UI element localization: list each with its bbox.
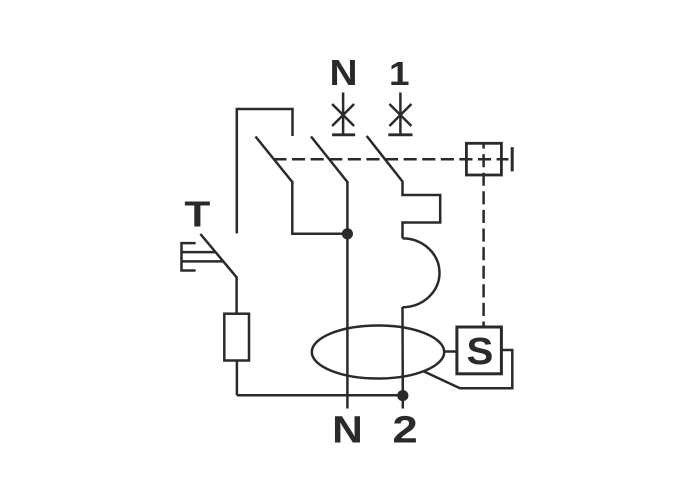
wire: secondary winding to relay S	[444, 350, 457, 353]
wire: pole A bottom to junction	[292, 181, 347, 234]
svg-text:S: S	[466, 331, 493, 373]
switch blade (pole C, line)	[367, 136, 403, 182]
svg-text:T: T	[184, 194, 210, 234]
toroidal core (sensing transformer ellipse)	[312, 326, 444, 379]
svg-text:N: N	[330, 53, 358, 93]
test push-button actuator (bracket with prongs)	[182, 243, 224, 270]
svg-text:N: N	[332, 408, 363, 451]
manual actuator tick	[511, 147, 514, 171]
wire: relay S return loop to secondary winding	[423, 350, 512, 388]
svg-text:1: 1	[389, 56, 410, 93]
mechanism box (square with dashed cross)	[466, 143, 501, 175]
wire: test blade to resistor	[235, 277, 238, 314]
primary winding bulge (line conductor half-turn through toroid)	[403, 238, 440, 307]
test switch blade	[200, 234, 236, 277]
svg-text:2: 2	[392, 408, 417, 451]
wire: line conductor down to node	[401, 307, 404, 396]
wire: resistor to bottom run	[236, 361, 239, 396]
dashed trip linkage (vertical, mechanism to relay S)	[482, 143, 485, 327]
wire: neutral conductor through toroid to terminal N	[346, 181, 349, 409]
wire: node down to terminal 2	[402, 396, 405, 409]
test resistor R	[224, 314, 249, 361]
switch blade (pole B, neutral)	[311, 137, 347, 183]
overcurrent release (thermal/magnetic trip detour)	[403, 181, 441, 238]
relay S box	[457, 327, 502, 374]
switch blade (pole A, test feed contact)	[256, 137, 293, 183]
dashed trip linkage (horizontal, couples the poles to mechanism)	[273, 158, 508, 161]
wire: test-circuit feed bracket (down-left from pole A fixed contact)	[237, 109, 293, 233]
junction node (test resistor joins line at terminal 2)	[397, 390, 408, 401]
terminal N (clamp symbol: stem, X cross, foot bar)	[332, 93, 355, 135]
wire: bottom run to node at terminal 2	[237, 394, 403, 397]
junction node (test feed joins neutral)	[342, 228, 353, 239]
terminal 1 (clamp symbol: stem, X cross, foot bar)	[388, 93, 412, 135]
